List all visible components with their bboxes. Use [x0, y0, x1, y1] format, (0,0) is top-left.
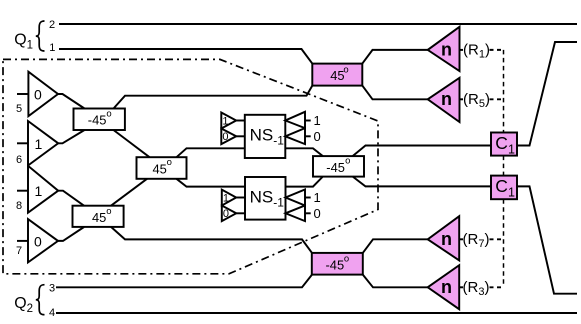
- svg-text:o: o: [344, 254, 349, 265]
- phase shifter box 45 (center): [137, 157, 187, 179]
- wire R5 label dash: [490, 98, 504, 100]
- resistor label (R3): [463, 279, 490, 298]
- mux select triangle NS1 left 1: [221, 113, 236, 129]
- pin 1 label: [49, 42, 55, 54]
- pin 6 label: [16, 154, 22, 166]
- wire C1 top output to top right: [517, 42, 577, 146]
- wire center -45 box to C1 top: [353, 146, 491, 157]
- svg-text:6: 6: [16, 154, 22, 166]
- phase shifter box 45 (left bottom): [73, 206, 124, 227]
- svg-text:45: 45: [153, 161, 167, 176]
- svg-text:0: 0: [223, 208, 229, 220]
- svg-text:0: 0: [222, 131, 228, 143]
- mux output triangle NS1 right 1: [285, 112, 305, 128]
- wire R3 to label: [459, 286, 463, 288]
- svg-text:45: 45: [92, 210, 106, 225]
- wire pink -45 box to R3: [363, 275, 428, 288]
- svg-text:n: n: [441, 40, 452, 60]
- svg-text:n: n: [441, 229, 452, 249]
- wire NS1 right 1: [305, 120, 311, 122]
- wire center 45 box to NS1 lower-left: [177, 148, 245, 157]
- phase shifter pink box -45 (bottom): [312, 253, 363, 275]
- amplifier triangle input5 gain 0: [28, 72, 58, 117]
- svg-text:4: 4: [49, 307, 55, 319]
- svg-text:o: o: [106, 109, 111, 120]
- phase shifter pink box 45 (top): [312, 64, 362, 86]
- wire T1 apex to -45 box top: [58, 94, 85, 109]
- wire -45 box to pink 45 box bottom-left: [114, 86, 313, 109]
- wire NS2 left mux0 to box: [236, 212, 245, 214]
- svg-text:3: 3: [49, 282, 55, 294]
- wire Q2 pin4 horizontal: [56, 312, 577, 314]
- NS1 block: [245, 115, 285, 158]
- brace for Q1: [36, 21, 45, 51]
- svg-text:7: 7: [16, 245, 22, 257]
- svg-text:0: 0: [314, 206, 321, 221]
- svg-text:(R1): (R1): [463, 42, 490, 61]
- svg-text:1: 1: [35, 136, 43, 152]
- brace for Q2: [36, 285, 45, 315]
- wire pink -45 box to R7: [363, 239, 428, 253]
- wire input stub 7: [17, 240, 28, 242]
- mux output triangle NS2 right 1: [286, 190, 306, 206]
- pin 7 label: [16, 245, 22, 257]
- capacitor block C1 bottom: [491, 176, 517, 200]
- mux output triangle NS1 right 0: [285, 128, 305, 144]
- svg-text:-45: -45: [88, 113, 107, 128]
- wire 45 box (left bottom) top to center 45 box bottom: [111, 179, 147, 206]
- capacitor block C1 top: [491, 133, 517, 156]
- svg-text:o: o: [106, 206, 111, 217]
- wire R7 label dash: [490, 238, 504, 240]
- wire NS2 upper-right to center -45 box bottom: [286, 177, 323, 187]
- svg-text:Q2: Q2: [14, 295, 33, 315]
- pin 8 label: [16, 200, 22, 212]
- svg-text:2: 2: [49, 19, 55, 31]
- wire NS1 left mux0 to box: [236, 135, 245, 137]
- svg-text:-45: -45: [326, 257, 345, 272]
- amplifier triangle n R3: [428, 265, 460, 309]
- amplifier triangle input7 gain 0: [28, 219, 58, 262]
- pin 2 label: [49, 19, 55, 31]
- wire R3 label dash: [490, 286, 504, 288]
- wire center 45 box to NS2 upper-left: [177, 179, 246, 187]
- wire pink 45 box to R5: [362, 86, 427, 100]
- mux output triangle NS2 right 0: [286, 206, 306, 222]
- amplifier triangle n R5: [428, 78, 460, 122]
- wire pink 45 box to R1: [362, 50, 427, 64]
- amplifier triangle input8 gain 1: [28, 166, 58, 213]
- wire input stub 6: [17, 142, 28, 144]
- pin 3 label: [49, 282, 55, 294]
- wire 45 box (left bottom) bottom to pink -45 box top-left: [111, 227, 312, 253]
- wire Q1 pin1 to 45deg pink box top-left: [59, 49, 312, 64]
- svg-text:-45: -45: [326, 160, 345, 175]
- svg-text:n: n: [441, 277, 452, 297]
- wire R1 label dash: [490, 49, 504, 51]
- wire T4 apex to 45 box bottom: [58, 227, 84, 241]
- wire T2 apex to -45 box bottom: [58, 130, 84, 143]
- svg-text:0: 0: [34, 233, 42, 249]
- svg-text:(R7): (R7): [463, 231, 490, 250]
- svg-text:1: 1: [35, 183, 43, 199]
- svg-text:(R5): (R5): [463, 91, 490, 110]
- svg-text:1: 1: [223, 192, 229, 204]
- svg-text:o: o: [343, 65, 348, 76]
- dash-dot boundary of circuit block: [3, 59, 378, 273]
- svg-text:8: 8: [16, 200, 22, 212]
- wire -45 box bottom to center 45 box top: [114, 130, 150, 157]
- pin 5 label: [16, 103, 22, 115]
- wire Q1 pin2 horizontal: [59, 23, 577, 25]
- wire R7 to label: [459, 238, 463, 240]
- svg-text:o: o: [345, 155, 350, 166]
- amplifier triangle n R1: [428, 27, 460, 71]
- svg-text:45: 45: [330, 68, 344, 83]
- wire Q2 pin3 to -45deg pink box bottom-left: [56, 275, 312, 288]
- wire NS2 left mux1 to box: [236, 197, 245, 199]
- wire R5 to label: [460, 98, 464, 100]
- wire input stub 5: [17, 93, 28, 95]
- svg-text:1: 1: [314, 113, 321, 128]
- wire T3 apex to 45 box top: [58, 191, 84, 206]
- mux select triangle NS2 left 0: [222, 206, 236, 222]
- svg-text:(R3): (R3): [463, 279, 490, 298]
- wire NS1 left mux1 to box: [236, 120, 245, 122]
- wire input stub 8: [17, 190, 28, 192]
- wire C1 bottom output to bottom right: [517, 186, 577, 293]
- wire R1 to label: [460, 49, 464, 51]
- amplifier triangle input6 gain 1: [28, 121, 58, 166]
- resistor label (R1): [463, 42, 490, 61]
- node Q2 label: [14, 295, 33, 315]
- svg-text:5: 5: [16, 103, 22, 115]
- phase shifter box -45 (center right): [313, 156, 364, 177]
- NS2 block: [245, 177, 286, 220]
- resistor label (R7): [463, 231, 490, 250]
- wire center -45 box to C1 bottom: [353, 177, 491, 187]
- dashed control line vertical: [503, 50, 505, 287]
- amplifier triangle n R7: [428, 216, 460, 260]
- phase shifter box -45 (left top): [74, 109, 125, 131]
- mux select triangle NS1 left 0: [221, 129, 236, 145]
- svg-text:Q1: Q1: [14, 32, 33, 52]
- svg-text:0: 0: [34, 87, 42, 103]
- svg-text:1: 1: [314, 190, 321, 205]
- wire NS2 right 1: [305, 197, 311, 199]
- mux select triangle NS2 left 1: [222, 190, 236, 206]
- wire NS2 right 0: [305, 212, 311, 214]
- node Q1 label: [14, 32, 33, 52]
- wire NS1 lower-right to center -45 box top: [285, 148, 323, 156]
- svg-text:n: n: [441, 89, 452, 109]
- wire NS1 right 0: [305, 135, 311, 137]
- resistor label (R5): [463, 91, 490, 110]
- svg-text:o: o: [167, 157, 172, 168]
- pin 4 label: [49, 307, 55, 319]
- svg-text:0: 0: [314, 129, 321, 144]
- svg-text:1: 1: [222, 115, 228, 127]
- svg-text:1: 1: [49, 42, 55, 54]
